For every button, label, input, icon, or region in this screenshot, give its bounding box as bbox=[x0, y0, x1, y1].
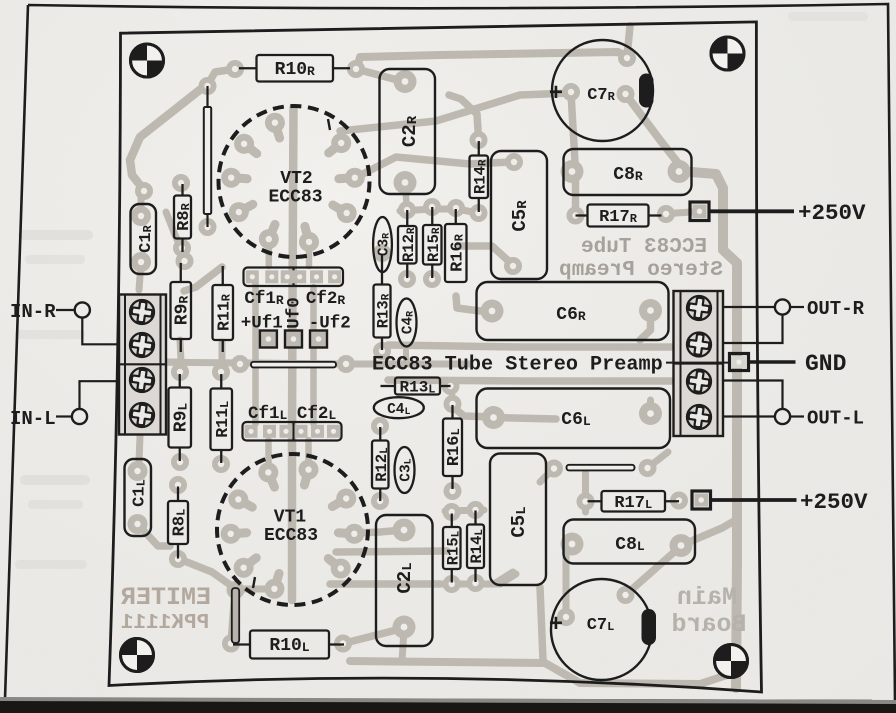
resistor R14L bbox=[467, 511, 486, 583]
terminal pads bbox=[133, 299, 708, 426]
tube VT1 socket pads bbox=[221, 460, 365, 599]
resistor R14R bbox=[470, 141, 490, 212]
terminal +250V (bottom) bbox=[692, 491, 711, 509]
capacitor C8L bbox=[564, 520, 696, 564]
label +250V (bottom) bbox=[800, 489, 868, 515]
svg-text:OUT-L: OUT-L bbox=[807, 408, 864, 430]
label OUT-R bbox=[807, 298, 865, 320]
node IN-L bbox=[72, 409, 87, 424]
resistor R13L bbox=[381, 378, 451, 397]
pads Uf1 Uf0 Uf2 bbox=[260, 331, 327, 348]
resistor R9R bbox=[171, 263, 193, 352]
component pads bbox=[128, 49, 693, 653]
resistor R12L bbox=[372, 427, 391, 501]
jumper wire W3 (vertical, bottom) bbox=[232, 588, 239, 643]
wire OUT-R elbow bbox=[723, 315, 783, 343]
wire IN-L bbox=[56, 415, 72, 417]
capacitor C3R bbox=[373, 217, 392, 272]
svg-text:ECC83: ECC83 bbox=[264, 526, 318, 546]
jumper wire W1 (vertical) bbox=[204, 86, 211, 227]
copper traces bbox=[130, 26, 737, 688]
wire OUT-R upper bbox=[723, 306, 775, 308]
resistor R17R bbox=[576, 205, 662, 228]
label Cf2L bbox=[297, 404, 337, 424]
capacitor C2L bbox=[376, 515, 433, 646]
svg-text:ECC83 Tube: ECC83 Tube bbox=[581, 236, 707, 259]
label GND bbox=[805, 351, 846, 377]
jumper wire W4 (horizontal, bottom) bbox=[567, 465, 635, 471]
wire to GND bbox=[749, 360, 796, 364]
resistor R13R bbox=[374, 255, 393, 350]
resistor R17L bbox=[588, 491, 680, 513]
svg-text:GND: GND bbox=[805, 351, 846, 377]
svg-text:+250V: +250V bbox=[800, 489, 868, 515]
capacitor pads Cf1R Cf2R bbox=[244, 268, 344, 287]
label Cf1R bbox=[244, 289, 284, 309]
resistor R15L bbox=[443, 514, 462, 583]
resistor R8L bbox=[168, 487, 190, 559]
tube VT2 bbox=[219, 106, 370, 257]
terminal GND bbox=[730, 354, 749, 371]
svg-text:PPK1111: PPK1111 bbox=[121, 612, 209, 635]
svg-text:Board: Board bbox=[671, 610, 746, 639]
resistor R10L bbox=[233, 631, 344, 659]
svg-text:Uf0: Uf0 bbox=[285, 297, 305, 329]
resistor R16L bbox=[443, 405, 464, 489]
wire OUT-L elbow bbox=[723, 381, 783, 409]
jumper wire W2 (horizontal) bbox=[251, 362, 336, 368]
fiducial bottom-left bbox=[121, 639, 154, 672]
svg-text:ECC83 Tube Stereo Preamp: ECC83 Tube Stereo Preamp bbox=[372, 354, 663, 377]
wire to +250V (bottom) bbox=[711, 498, 797, 502]
photo bottom edge bbox=[0, 697, 896, 713]
label -Uf2 bbox=[309, 314, 351, 334]
capacitor C6R bbox=[477, 282, 669, 340]
fiducial top-left bbox=[131, 44, 164, 77]
label Cf1L bbox=[248, 404, 288, 424]
svg-text:+: + bbox=[549, 81, 563, 108]
resistor R11R bbox=[213, 266, 234, 352]
capacitor C5L bbox=[490, 454, 546, 586]
label Cf2R bbox=[306, 289, 346, 309]
svg-text:VT1: VT1 bbox=[274, 508, 307, 528]
fiducial bottom-right bbox=[715, 645, 748, 678]
wire title to GND pad bbox=[666, 362, 730, 364]
resistor R8R bbox=[174, 184, 194, 252]
capacitor C4R bbox=[397, 299, 417, 347]
svg-text:IN-L: IN-L bbox=[10, 408, 56, 430]
resistor R16R bbox=[445, 209, 467, 282]
svg-text:Stereo Preamp: Stereo Preamp bbox=[559, 259, 723, 282]
capacitor C6L bbox=[477, 389, 671, 449]
svg-text:OUT-R: OUT-R bbox=[807, 298, 865, 320]
ghost text ECC83 Tube (mirrored) bbox=[559, 236, 723, 282]
output terminal block bbox=[674, 291, 724, 436]
svg-text:EMITER: EMITER bbox=[121, 583, 211, 612]
terminal +250V (right) bbox=[690, 202, 709, 221]
capacitor C3L bbox=[395, 447, 415, 493]
capacitor pads Cf1L Cf2L bbox=[243, 422, 342, 441]
capacitor C7L bbox=[549, 579, 656, 680]
wire OUT-L lower bbox=[723, 415, 775, 417]
label IN-L bbox=[10, 408, 56, 430]
resistor R11L bbox=[211, 374, 233, 463]
wire to +250V (right) bbox=[709, 209, 794, 213]
svg-text:VT2: VT2 bbox=[280, 169, 312, 189]
resistor R10R bbox=[239, 55, 350, 82]
node OUT-R bbox=[775, 299, 804, 314]
board outline bbox=[109, 22, 762, 692]
resistor R9L bbox=[169, 374, 192, 461]
fiducial top-right bbox=[711, 37, 744, 70]
svg-text:+: + bbox=[549, 612, 563, 639]
tube VT2 socket pads bbox=[221, 113, 365, 252]
capacitor C2R bbox=[380, 69, 436, 194]
capacitor C5R bbox=[491, 151, 547, 279]
ghost text Main Board (mirrored) bbox=[671, 583, 746, 639]
capacitor C1R bbox=[131, 204, 157, 274]
svg-text:+250V: +250V bbox=[798, 200, 866, 226]
label IN-R bbox=[10, 301, 56, 323]
ghost text EMITER PPK1111 (mirrored) bbox=[121, 583, 211, 635]
label +Uf1 bbox=[241, 314, 283, 334]
svg-text:Main: Main bbox=[677, 583, 737, 612]
capacitor C1L bbox=[125, 459, 152, 536]
wire IN-R to board bbox=[82, 318, 118, 345]
label +250V (right) bbox=[798, 200, 866, 226]
label Uf0 bbox=[285, 297, 305, 329]
svg-text:ECC83: ECC83 bbox=[268, 188, 322, 208]
node OUT-L bbox=[775, 409, 804, 424]
wire IN-R bbox=[56, 309, 75, 311]
node IN-R bbox=[75, 302, 90, 317]
input terminal block bbox=[119, 295, 166, 435]
label OUT-L bbox=[807, 408, 864, 430]
capacitor C7R bbox=[549, 40, 654, 141]
capacitor C8R bbox=[564, 149, 692, 195]
label ECC83 Tube Stereo Preamp bbox=[372, 354, 663, 377]
capacitor C4L bbox=[374, 397, 424, 418]
tube VT1 bbox=[217, 454, 368, 605]
resistor R12R bbox=[398, 210, 418, 278]
wire IN-L to board bbox=[80, 381, 119, 409]
paper smudges bbox=[15, 12, 868, 569]
resistor R15R bbox=[423, 207, 443, 278]
